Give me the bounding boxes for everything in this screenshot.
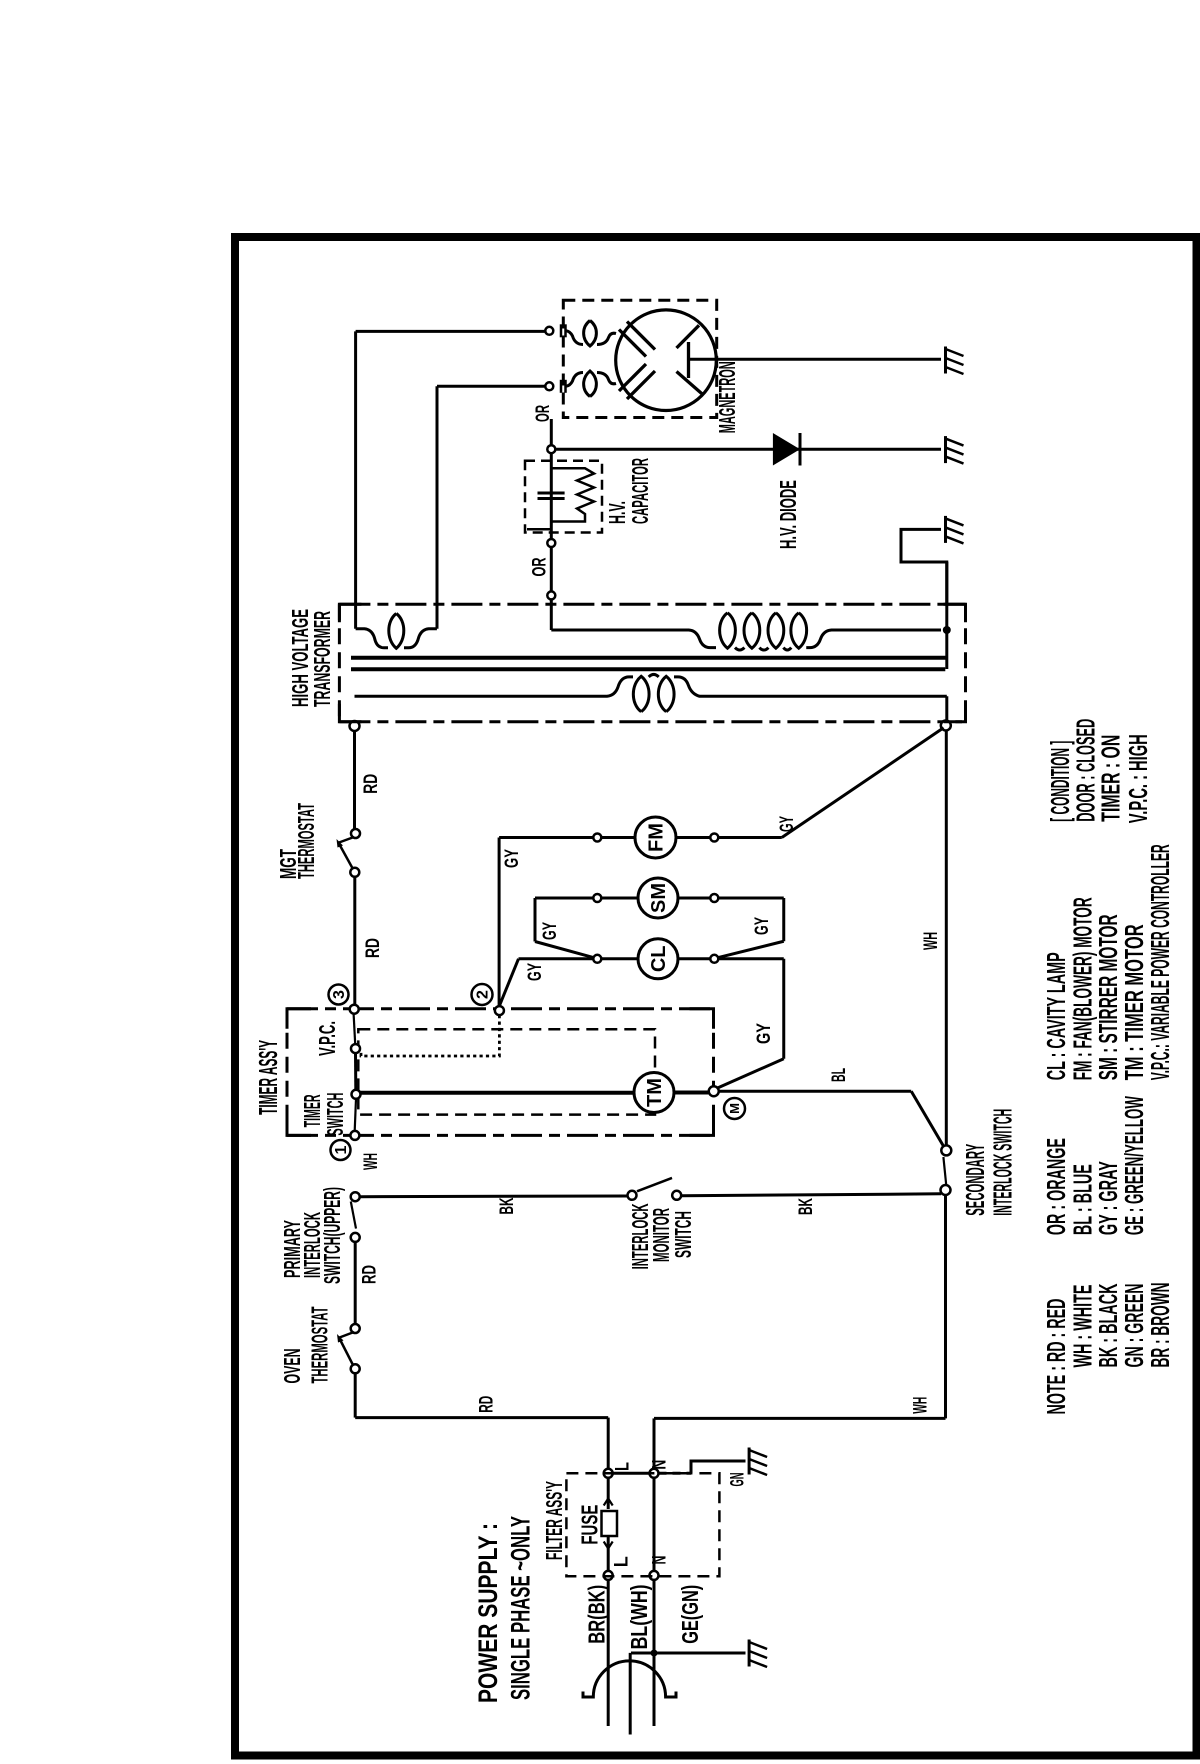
svg-text:BK: BK: [497, 1197, 518, 1214]
svg-text:OR: OR: [533, 405, 554, 422]
svg-text:TRANSFORMER: TRANSFORMER: [309, 611, 335, 707]
svg-text:GY: GY: [540, 922, 561, 940]
svg-text:SWITCH: SWITCH: [322, 1093, 348, 1136]
svg-text:V.P.C.: VARIABLE POWER CONTROL: V.P.C.: VARIABLE POWER CONTROLLER: [1145, 844, 1175, 1080]
svg-text:THERMOSTAT: THERMOSTAT: [293, 803, 319, 879]
svg-text:CAPACITOR: CAPACITOR: [627, 458, 653, 524]
svg-text:N: N: [650, 1460, 671, 1470]
svg-text:GY: GY: [752, 917, 773, 935]
svg-text:N: N: [650, 1556, 671, 1565]
svg-text:GN: GN: [727, 1473, 748, 1487]
svg-text:MAGNETRON: MAGNETRON: [714, 361, 740, 433]
svg-text:BK: BK: [796, 1198, 817, 1215]
svg-text:GE(GN): GE(GN): [677, 1585, 703, 1644]
svg-text:SM: SM: [648, 883, 670, 913]
svg-text:RD: RD: [477, 1396, 498, 1413]
svg-text:BR(BK): BR(BK): [584, 1585, 610, 1644]
svg-text:POWER SUPPLY :: POWER SUPPLY :: [473, 1523, 503, 1703]
svg-text:GY: GY: [777, 816, 798, 832]
svg-text:1: 1: [333, 1145, 350, 1154]
svg-text:GY: GY: [502, 849, 523, 868]
svg-text:SWITCH: SWITCH: [670, 1211, 696, 1258]
svg-text:3: 3: [331, 990, 348, 999]
svg-text:WH: WH: [921, 932, 942, 950]
svg-text:M: M: [727, 1103, 742, 1114]
svg-text:V.P.C.: V.P.C.: [314, 1021, 340, 1056]
svg-text:BR : BROWN: BR : BROWN: [1145, 1283, 1175, 1368]
svg-text:TM: TM: [644, 1078, 666, 1107]
svg-text:RD: RD: [361, 774, 382, 794]
svg-text:GY: GY: [754, 1023, 775, 1044]
svg-text:FILTER ASS'Y: FILTER ASS'Y: [541, 1481, 567, 1560]
svg-text:SWITCH(UPPER): SWITCH(UPPER): [319, 1187, 345, 1284]
svg-text:OVEN: OVEN: [279, 1349, 305, 1384]
svg-text:SECONDARY: SECONDARY: [960, 1144, 990, 1216]
svg-text:H.V. DIODE: H.V. DIODE: [775, 480, 801, 549]
svg-text:WH: WH: [361, 1153, 382, 1170]
svg-text:SINGLE PHASE ~ONLY: SINGLE PHASE ~ONLY: [506, 1516, 536, 1700]
svg-text:V.P.C. : HIGH: V.P.C. : HIGH: [1123, 734, 1153, 823]
svg-text:TIMER ASS'Y: TIMER ASS'Y: [253, 1040, 283, 1115]
svg-text:FM: FM: [646, 823, 668, 852]
svg-text:BL: BL: [829, 1068, 850, 1082]
svg-text:THERMOSTAT: THERMOSTAT: [307, 1307, 333, 1384]
svg-text:BL(WH): BL(WH): [626, 1584, 652, 1649]
svg-text:INTERLOCK SWITCH: INTERLOCK SWITCH: [988, 1109, 1018, 1216]
svg-text:L: L: [613, 1462, 634, 1471]
svg-text:WH: WH: [911, 1397, 932, 1414]
svg-text:L: L: [611, 1556, 632, 1567]
svg-text:OR: OR: [530, 557, 551, 576]
svg-text:GY: GY: [525, 963, 546, 981]
svg-text:FUSE: FUSE: [577, 1505, 603, 1545]
svg-text:2: 2: [475, 990, 492, 999]
svg-text:RD: RD: [363, 938, 384, 958]
svg-text:CL: CL: [648, 945, 670, 972]
svg-text:GE : GREEN/YELLOW: GE : GREEN/YELLOW: [1119, 1096, 1149, 1235]
svg-text:TIMER : ON: TIMER : ON: [1096, 735, 1126, 822]
svg-text:RD: RD: [359, 1265, 380, 1284]
